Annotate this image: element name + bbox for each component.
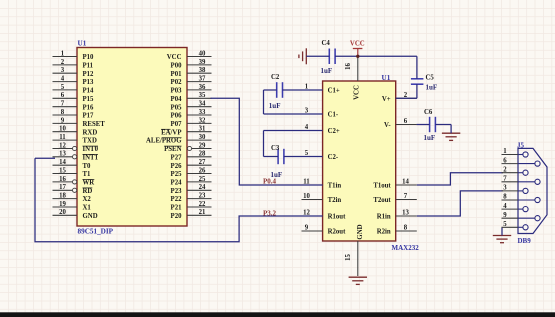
svg-text:1uF: 1uF [269,102,281,110]
svg-text:R1out: R1out [328,214,346,221]
svg-text:1uF: 1uF [424,134,436,142]
svg-text:5: 5 [61,84,65,91]
svg-text:VCC: VCC [350,41,365,48]
svg-text:21: 21 [199,209,206,216]
svg-text:P16: P16 [83,104,95,111]
svg-text:1: 1 [61,50,65,57]
svg-text:32: 32 [199,117,206,124]
svg-text:ALE/PROG: ALE/PROG [146,138,182,145]
svg-text:8: 8 [404,225,408,232]
svg-text:3: 3 [61,67,65,74]
svg-text:16: 16 [59,176,66,183]
svg-text:C4: C4 [322,40,331,47]
svg-text:R1in: R1in [377,214,391,221]
svg-text:C6: C6 [424,109,433,116]
svg-text:U1: U1 [382,74,391,82]
svg-text:P11: P11 [83,63,94,70]
svg-text:19: 19 [59,201,66,208]
svg-text:3: 3 [503,185,507,192]
svg-text:20: 20 [59,209,66,216]
svg-text:34: 34 [199,101,206,108]
svg-text:22: 22 [199,201,206,208]
svg-text:C1+: C1+ [328,88,340,95]
svg-text:P12: P12 [83,71,95,78]
svg-text:P0.4: P0.4 [263,177,277,185]
svg-text:P05: P05 [171,104,183,111]
svg-text:P25: P25 [171,171,183,178]
svg-text:PSEN: PSEN [164,146,181,153]
svg-text:P14: P14 [83,88,95,95]
svg-text:MAX232: MAX232 [392,244,420,252]
svg-text:7: 7 [61,101,65,108]
svg-text:12: 12 [59,142,66,149]
svg-text:GND: GND [357,224,364,239]
svg-text:30: 30 [199,134,206,141]
svg-text:2: 2 [503,166,507,173]
svg-text:37: 37 [199,76,206,83]
svg-text:89C51_DIP: 89C51_DIP [78,227,114,235]
svg-text:6: 6 [404,118,408,125]
svg-text:23: 23 [199,193,206,200]
svg-text:VCC: VCC [167,54,182,61]
svg-text:9: 9 [503,212,507,219]
svg-text:V-: V- [384,122,391,129]
svg-text:VCC: VCC [353,85,360,100]
svg-text:14: 14 [59,159,66,166]
svg-text:P27: P27 [171,154,183,161]
svg-text:P20: P20 [171,213,183,220]
svg-text:13: 13 [402,210,409,217]
svg-text:R2in: R2in [377,229,391,236]
svg-text:14: 14 [402,179,409,186]
svg-text:P15: P15 [83,96,95,103]
svg-text:16: 16 [345,63,352,70]
svg-text:C5: C5 [426,75,435,82]
svg-text:TXD: TXD [83,138,97,145]
svg-text:35: 35 [199,92,206,99]
svg-text:8: 8 [503,194,507,201]
svg-text:RESET: RESET [83,121,106,128]
svg-text:4: 4 [503,203,507,210]
svg-text:P22: P22 [171,196,183,203]
svg-text:X2: X2 [83,196,92,203]
svg-text:13: 13 [59,151,66,158]
svg-text:P3.2: P3.2 [263,209,277,217]
svg-text:1uF: 1uF [426,84,438,92]
svg-text:40: 40 [199,50,206,57]
svg-text:9: 9 [61,117,65,124]
svg-text:C2-: C2- [328,154,339,161]
svg-text:P21: P21 [171,205,183,212]
svg-text:T1: T1 [83,171,92,178]
svg-text:DB9: DB9 [518,237,532,245]
svg-text:C1-: C1- [328,112,339,119]
svg-text:EA/VP: EA/VP [161,129,181,136]
svg-text:T2in: T2in [328,197,342,204]
svg-text:R2out: R2out [328,229,346,236]
svg-text:7: 7 [503,176,507,183]
svg-text:C2+: C2+ [328,128,340,135]
svg-text:7: 7 [404,193,408,200]
svg-text:27: 27 [199,159,206,166]
svg-text:X1: X1 [83,205,92,212]
svg-text:10: 10 [303,193,310,200]
svg-text:C2: C2 [271,74,280,81]
svg-text:39: 39 [199,59,206,66]
svg-text:P04: P04 [171,96,183,103]
svg-text:24: 24 [199,184,206,191]
svg-text:4: 4 [61,76,65,83]
svg-text:T0: T0 [83,163,92,170]
svg-text:15: 15 [59,167,66,174]
svg-text:10: 10 [59,126,66,133]
svg-text:P13: P13 [83,79,95,86]
svg-text:15: 15 [345,254,352,261]
svg-text:28: 28 [199,151,206,158]
svg-text:6: 6 [61,92,65,99]
svg-text:P26: P26 [171,163,183,170]
svg-text:WR: WR [83,180,95,187]
svg-text:31: 31 [199,126,206,133]
svg-text:5: 5 [503,221,507,228]
svg-text:RD: RD [83,188,93,195]
svg-text:P07: P07 [171,121,183,128]
svg-text:25: 25 [199,176,206,183]
svg-text:INT0: INT0 [83,146,99,153]
svg-text:P23: P23 [171,188,183,195]
svg-text:P03: P03 [171,88,183,95]
svg-text:17: 17 [59,184,66,191]
svg-text:T1out: T1out [373,183,391,190]
svg-text:P17: P17 [83,113,95,120]
svg-text:8: 8 [61,109,65,116]
svg-text:1uF: 1uF [321,67,333,75]
svg-text:RXD: RXD [83,129,98,136]
svg-text:C3: C3 [271,145,280,152]
svg-text:P10: P10 [83,54,95,61]
svg-text:6: 6 [503,157,507,164]
svg-text:P24: P24 [171,180,183,187]
svg-text:18: 18 [59,193,66,200]
svg-text:9: 9 [305,225,309,232]
svg-text:38: 38 [199,67,206,74]
svg-text:33: 33 [199,109,206,116]
svg-text:36: 36 [199,84,206,91]
svg-text:T2out: T2out [373,197,391,204]
svg-text:11: 11 [59,134,66,141]
svg-text:P06: P06 [171,113,183,120]
svg-text:T1in: T1in [328,183,342,190]
svg-text:26: 26 [199,167,206,174]
svg-text:INT1: INT1 [83,154,99,161]
svg-text:P00: P00 [171,63,183,70]
svg-text:2: 2 [61,59,65,66]
svg-text:V+: V+ [382,96,391,103]
svg-text:1: 1 [503,148,507,155]
svg-text:P02: P02 [171,79,183,86]
svg-text:U1: U1 [78,39,87,47]
svg-text:29: 29 [199,142,206,149]
svg-text:P01: P01 [171,71,183,78]
svg-text:GND: GND [83,213,98,220]
